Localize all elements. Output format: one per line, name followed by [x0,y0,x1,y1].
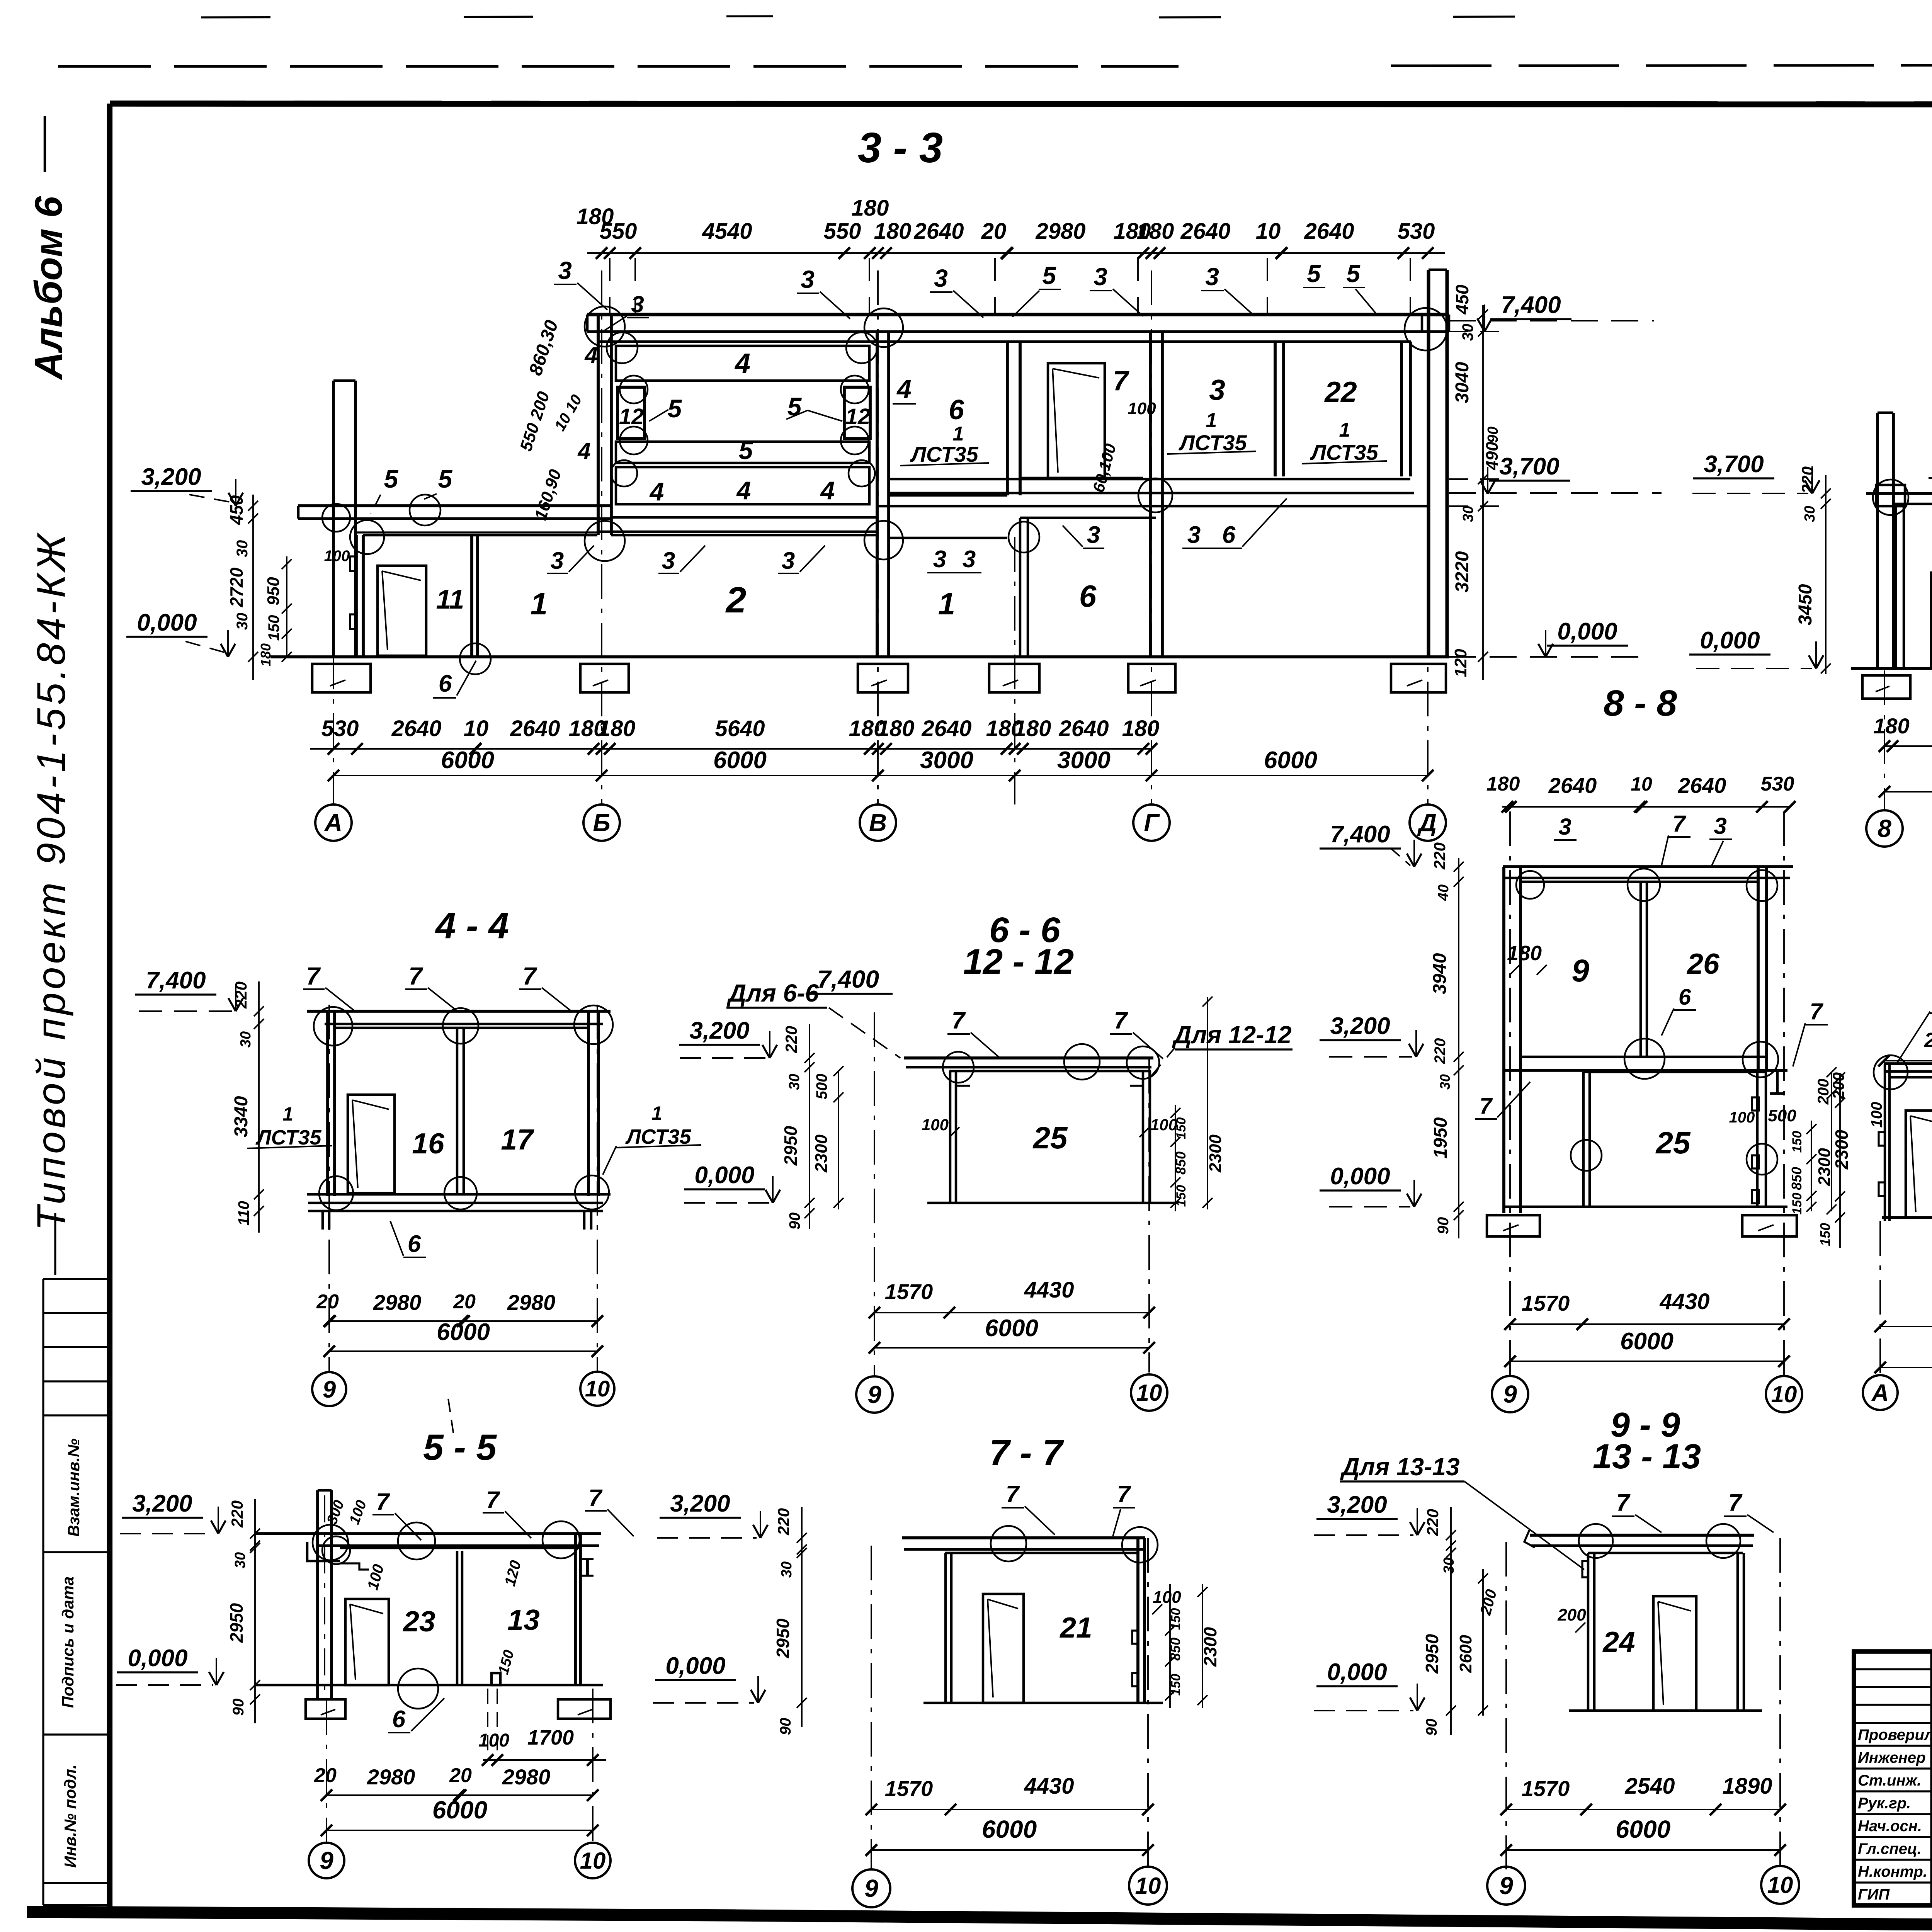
svg-text:150: 150 [1817,1223,1833,1246]
svg-text:7: 7 [1113,366,1129,396]
svg-text:Проверил: Проверил [1858,1726,1932,1743]
svg-text:1570: 1570 [1522,1776,1570,1801]
svg-text:2950: 2950 [1422,1634,1442,1674]
svg-text:3450: 3450 [1795,584,1816,625]
svg-text:2300: 2300 [1200,1627,1220,1667]
svg-text:0,000: 0,000 [137,609,197,636]
svg-text:9: 9 [867,1381,881,1408]
svg-text:6000: 6000 [713,747,767,774]
svg-text:90: 90 [1435,1217,1452,1235]
svg-text:7: 7 [408,962,423,990]
svg-text:В: В [869,809,887,837]
svg-text:550: 550 [600,219,637,244]
svg-text:0,000: 0,000 [1700,627,1760,654]
svg-text:220: 220 [1423,1509,1442,1536]
svg-text:ГИП: ГИП [1858,1886,1890,1903]
svg-text:4: 4 [820,476,835,505]
svg-text:20: 20 [314,1764,337,1787]
svg-text:220: 220 [232,981,250,1009]
svg-text:3,700: 3,700 [1499,453,1559,480]
svg-text:7,400: 7,400 [1501,292,1561,318]
svg-text:Для 6-6: Для 6-6 [726,979,819,1007]
svg-text:2950: 2950 [773,1618,793,1658]
svg-text:150: 150 [1174,1117,1189,1139]
svg-text:180: 180 [1137,219,1174,244]
svg-text:3: 3 [558,257,572,284]
svg-text:12: 12 [619,404,644,429]
svg-text:90: 90 [777,1718,794,1735]
svg-text:7,400: 7,400 [146,967,206,994]
svg-text:220: 220 [782,1026,800,1053]
svg-text:30: 30 [779,1561,795,1578]
svg-text:2950: 2950 [226,1603,247,1643]
svg-text:200: 200 [1815,1079,1832,1105]
svg-text:150: 150 [1168,1608,1183,1630]
svg-text:100: 100 [324,548,350,565]
svg-text:9: 9 [1499,1872,1513,1900]
svg-text:200: 200 [1829,1072,1847,1100]
svg-text:3340: 3340 [231,1096,252,1137]
svg-text:2980: 2980 [373,1290,422,1315]
svg-text:220: 220 [1430,842,1449,870]
svg-text:2250: 2250 [1924,1029,1932,1052]
svg-text:7: 7 [1616,1490,1631,1516]
svg-text:3: 3 [782,548,795,574]
svg-text:150: 150 [1790,1193,1804,1215]
svg-text:Подпись и дата: Подпись и дата [59,1577,77,1708]
svg-text:150: 150 [1174,1185,1189,1207]
svg-text:5: 5 [668,394,682,423]
svg-text:А: А [324,809,342,837]
svg-text:3: 3 [1205,263,1219,291]
svg-text:Б: Б [593,809,610,837]
svg-text:12: 12 [845,404,871,429]
svg-text:3: 3 [631,291,644,317]
svg-text:2980: 2980 [502,1765,551,1789]
svg-text:100: 100 [1729,1109,1755,1126]
svg-text:90: 90 [230,1699,247,1716]
svg-text:3,200: 3,200 [141,464,201,490]
svg-text:3040: 3040 [1452,362,1473,403]
svg-text:1: 1 [1339,419,1350,441]
svg-text:180: 180 [877,716,915,741]
svg-text:2640: 2640 [391,716,441,741]
svg-text:2640: 2640 [913,219,964,244]
svg-text:1: 1 [938,587,956,621]
svg-text:25: 25 [1032,1121,1068,1155]
svg-text:10: 10 [1136,1380,1162,1406]
svg-text:950: 950 [264,577,283,605]
svg-text:6: 6 [408,1231,421,1257]
svg-text:ЛСТ35: ЛСТ35 [910,442,978,466]
svg-text:180: 180 [598,716,636,741]
svg-text:3: 3 [801,265,815,293]
svg-text:220: 220 [1432,1038,1449,1065]
svg-text:0,000: 0,000 [128,1645,187,1672]
svg-text:23: 23 [402,1605,435,1638]
svg-text:1950: 1950 [1430,1117,1451,1158]
svg-text:4: 4 [736,476,751,505]
svg-text:Г: Г [1144,809,1160,837]
svg-text:4430: 4430 [1024,1277,1074,1303]
svg-text:180: 180 [258,643,274,667]
svg-text:Для 13-13: Для 13-13 [1340,1453,1459,1481]
svg-text:3,200: 3,200 [1330,1013,1390,1039]
svg-text:3: 3 [551,548,564,574]
svg-text:4: 4 [584,342,597,368]
svg-text:4: 4 [577,438,590,464]
svg-text:5: 5 [739,436,753,464]
svg-text:1570: 1570 [885,1776,933,1801]
svg-text:Рук.гр.: Рук.гр. [1858,1795,1911,1812]
svg-text:220: 220 [228,1500,246,1528]
svg-text:530: 530 [321,716,359,741]
svg-text:7 - 7: 7 - 7 [989,1432,1064,1473]
svg-text:7,400: 7,400 [817,965,879,993]
svg-text:1: 1 [651,1102,662,1124]
svg-text:6: 6 [1222,522,1236,548]
svg-text:6000: 6000 [1264,747,1317,774]
svg-text:90: 90 [1485,427,1501,443]
svg-text:90: 90 [1423,1719,1440,1736]
svg-text:5: 5 [1042,262,1056,289]
svg-text:4540: 4540 [702,219,752,244]
svg-text:8: 8 [1878,815,1891,842]
svg-text:9: 9 [1503,1380,1517,1408]
svg-text:530: 530 [1398,219,1435,244]
svg-text:5: 5 [1346,260,1361,287]
svg-text:7: 7 [1810,998,1823,1024]
svg-text:6000: 6000 [437,1319,490,1345]
svg-text:Для 12-12: Для 12-12 [1172,1021,1291,1049]
svg-text:0,000: 0,000 [1330,1163,1390,1190]
svg-text:7: 7 [1480,1094,1493,1119]
svg-text:4: 4 [896,374,912,404]
svg-text:Типовой проект 904-1-55.84-К: Типовой проект 904-1-55.84-КЖ [29,531,74,1231]
svg-text:200: 200 [1557,1605,1586,1624]
svg-text:3: 3 [1558,814,1571,840]
svg-text:6: 6 [392,1706,406,1733]
svg-text:90: 90 [786,1213,803,1230]
svg-text:3220: 3220 [1452,551,1473,592]
svg-text:530: 530 [1761,773,1794,795]
svg-text:17: 17 [501,1123,534,1156]
svg-text:22: 22 [1324,376,1357,408]
svg-text:180: 180 [1507,942,1542,965]
svg-text:20: 20 [316,1291,339,1313]
svg-text:3: 3 [934,264,948,292]
svg-text:180: 180 [1486,773,1520,795]
svg-text:2640: 2640 [510,716,560,741]
svg-text:3,200: 3,200 [689,1017,749,1044]
svg-text:0,000: 0,000 [665,1653,725,1679]
svg-text:7: 7 [306,962,321,990]
svg-text:4: 4 [649,477,664,506]
svg-text:6000: 6000 [432,1796,487,1824]
svg-text:30: 30 [234,613,251,630]
svg-text:2640: 2640 [1304,219,1354,244]
svg-text:10: 10 [1135,1873,1161,1899]
svg-text:100: 100 [478,1730,509,1751]
svg-text:500: 500 [813,1074,830,1100]
svg-text:2640: 2640 [1548,773,1597,798]
svg-text:4 - 4: 4 - 4 [435,905,509,946]
svg-text:6000: 6000 [982,1815,1037,1843]
svg-text:1890: 1890 [1722,1774,1772,1799]
svg-text:6000: 6000 [1620,1328,1673,1355]
svg-text:7: 7 [486,1487,500,1514]
svg-text:1: 1 [531,587,548,621]
svg-text:120: 120 [1451,649,1470,677]
svg-text:3: 3 [933,546,946,573]
svg-text:30: 30 [1460,506,1476,522]
svg-text:20: 20 [981,219,1007,244]
svg-text:5640: 5640 [715,716,765,741]
svg-text:850: 850 [1789,1167,1804,1190]
svg-text:20: 20 [453,1291,476,1313]
svg-text:24: 24 [1602,1626,1635,1658]
svg-text:Инв.№ подл.: Инв.№ подл. [61,1764,79,1867]
svg-text:150: 150 [265,615,282,641]
svg-text:40: 40 [1435,884,1452,901]
svg-text:30: 30 [786,1074,803,1090]
svg-text:10: 10 [464,716,489,741]
svg-text:7: 7 [376,1489,390,1515]
svg-text:110: 110 [235,1201,252,1226]
svg-text:30: 30 [234,540,251,558]
svg-text:Ст.инж.: Ст.инж. [1858,1772,1921,1789]
svg-text:Д: Д [1417,809,1437,837]
svg-text:1700: 1700 [527,1726,574,1749]
svg-text:500: 500 [1768,1106,1796,1125]
svg-text:30: 30 [1459,324,1476,341]
svg-text:180: 180 [1014,716,1051,741]
svg-text:7: 7 [952,1007,966,1034]
svg-text:100: 100 [1150,1116,1177,1134]
svg-text:4: 4 [734,348,750,379]
svg-text:2: 2 [725,580,747,621]
svg-text:4430: 4430 [1024,1774,1074,1799]
svg-text:20: 20 [449,1764,472,1787]
svg-text:3 - 3: 3 - 3 [858,124,943,172]
svg-text:7: 7 [1006,1481,1020,1508]
svg-text:450: 450 [226,495,247,525]
svg-text:2300: 2300 [1815,1148,1834,1186]
svg-text:7: 7 [522,962,537,990]
svg-text:100: 100 [1153,1588,1181,1607]
svg-text:7: 7 [588,1485,603,1512]
svg-text:16: 16 [412,1127,445,1160]
svg-text:ЛСТ35: ЛСТ35 [1310,440,1378,464]
svg-text:100: 100 [922,1116,949,1134]
svg-text:7: 7 [1117,1481,1131,1508]
svg-text:850: 850 [1173,1151,1189,1175]
svg-text:2300: 2300 [1206,1134,1225,1173]
svg-text:30: 30 [1437,1074,1453,1090]
svg-text:2640: 2640 [921,716,971,741]
svg-text:11: 11 [436,584,464,614]
svg-text:3: 3 [1187,522,1201,548]
svg-text:3: 3 [1714,813,1726,839]
svg-text:3: 3 [1209,374,1225,406]
svg-text:0,000: 0,000 [1557,618,1617,645]
svg-text:6000: 6000 [1616,1815,1670,1843]
svg-text:3000: 3000 [920,747,973,774]
svg-text:10: 10 [1256,219,1281,244]
svg-text:21: 21 [1059,1611,1092,1644]
svg-text:25: 25 [1655,1126,1691,1160]
svg-text:7: 7 [1728,1490,1743,1516]
svg-text:13 - 13: 13 - 13 [1593,1437,1701,1476]
svg-text:180: 180 [1873,714,1909,738]
svg-text:5 - 5: 5 - 5 [423,1427,497,1468]
svg-text:10: 10 [1771,1381,1797,1407]
svg-text:3: 3 [963,546,976,573]
svg-text:10: 10 [1767,1872,1793,1898]
svg-text:6000: 6000 [441,747,494,774]
svg-text:2980: 2980 [367,1765,415,1789]
svg-text:10: 10 [1631,773,1652,795]
svg-text:850: 850 [1167,1638,1183,1661]
svg-text:30: 30 [238,1031,254,1048]
svg-text:2720: 2720 [226,567,247,607]
svg-text:30: 30 [1802,506,1818,522]
svg-text:Нач.осн.: Нач.осн. [1858,1818,1922,1835]
svg-text:3940: 3940 [1430,953,1450,994]
svg-text:5: 5 [1307,260,1321,287]
svg-text:5: 5 [438,464,453,493]
svg-text:5: 5 [384,464,399,493]
svg-text:220: 220 [774,1508,793,1536]
svg-text:Гл.спец.: Гл.спец. [1858,1840,1922,1857]
svg-text:Н.контр.: Н.контр. [1858,1863,1927,1880]
svg-text:Альбом 6: Альбом 6 [27,196,70,381]
svg-text:150: 150 [1168,1674,1183,1696]
svg-text:2950: 2950 [781,1126,801,1166]
svg-text:6000: 6000 [985,1315,1038,1342]
svg-text:30: 30 [1441,1558,1457,1574]
svg-text:450: 450 [1452,284,1472,315]
svg-text:6: 6 [1079,579,1097,613]
svg-text:0,000: 0,000 [1327,1659,1387,1685]
svg-text:2640: 2640 [1678,773,1726,798]
svg-text:1: 1 [282,1103,293,1125]
svg-text:7: 7 [1114,1007,1128,1034]
svg-text:220: 220 [1798,466,1816,494]
svg-text:4430: 4430 [1659,1289,1709,1314]
svg-text:2540: 2540 [1624,1774,1675,1799]
svg-text:6: 6 [439,670,452,697]
svg-text:Инженер: Инженер [1858,1749,1925,1766]
svg-text:100: 100 [1868,1102,1885,1128]
svg-text:13: 13 [507,1604,539,1636]
svg-text:Взам.инв.№: Взам.инв.№ [65,1439,83,1537]
svg-text:12 - 12: 12 - 12 [963,942,1074,981]
svg-text:10: 10 [580,1848,606,1874]
svg-text:3,200: 3,200 [132,1490,192,1517]
svg-text:3,700: 3,700 [1704,451,1764,478]
svg-text:2600: 2600 [1456,1635,1475,1673]
svg-text:3: 3 [1087,522,1100,548]
svg-text:1570: 1570 [885,1279,933,1304]
svg-text:А: А [1871,1380,1889,1406]
svg-text:26: 26 [1686,947,1720,980]
svg-text:9: 9 [323,1376,336,1403]
svg-text:9: 9 [1571,953,1589,988]
svg-text:2640: 2640 [1180,219,1230,244]
svg-text:7: 7 [1672,811,1686,837]
svg-text:490: 490 [1483,442,1502,471]
svg-text:2300: 2300 [1832,1129,1852,1170]
svg-text:180: 180 [874,219,912,244]
svg-text:7,400: 7,400 [1330,821,1390,848]
svg-text:180: 180 [1122,716,1160,741]
svg-text:9: 9 [320,1847,333,1874]
svg-text:1: 1 [1206,409,1217,432]
svg-text:3,200: 3,200 [670,1490,730,1517]
svg-text:150: 150 [1790,1131,1804,1153]
svg-text:1570: 1570 [1522,1291,1570,1315]
svg-text:3,200: 3,200 [1327,1492,1387,1518]
svg-text:30: 30 [232,1552,248,1568]
svg-text:3000: 3000 [1057,747,1111,774]
svg-text:9: 9 [864,1874,878,1902]
svg-text:6: 6 [1679,985,1691,1010]
svg-text:10: 10 [585,1376,610,1401]
svg-text:180: 180 [852,196,889,221]
svg-text:2640: 2640 [1058,716,1109,741]
svg-text:2980: 2980 [507,1290,556,1315]
svg-text:2300: 2300 [812,1134,831,1173]
svg-text:550: 550 [824,219,861,244]
svg-text:2980: 2980 [1035,219,1085,244]
svg-text:6: 6 [949,395,964,425]
svg-text:0,000: 0,000 [694,1162,754,1189]
svg-text:3: 3 [1094,263,1107,291]
svg-text:3: 3 [662,548,675,574]
svg-text:8 - 8: 8 - 8 [1604,683,1677,724]
